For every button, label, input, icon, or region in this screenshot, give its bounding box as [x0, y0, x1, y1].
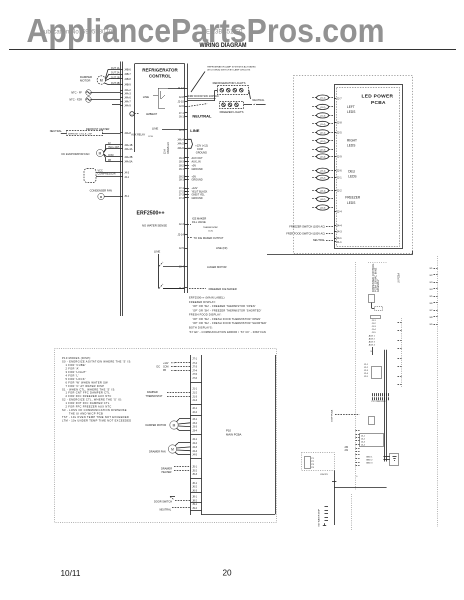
svg-text:AUX RELAY: AUX RELAY	[131, 134, 145, 137]
svg-text:'OP' OR 'SH' - FRESH FOOD THER: 'OP' OR 'SH' - FRESH FOOD THERMISTOR 'OP…	[192, 317, 261, 321]
dashed rail right outer	[437, 256, 439, 527]
wire below led assembly	[267, 251, 413, 255]
text ERF2500	[137, 210, 165, 216]
svg-text:~: ~	[131, 112, 133, 116]
svg-text:J7-1: J7-1	[192, 358, 197, 361]
svg-text:DISP PCBA: DISP PCBA	[331, 409, 334, 421]
svg-text:J8-1: J8-1	[179, 168, 184, 171]
svg-text:EI23BC51IS0: EI23BC51IS0	[206, 30, 243, 36]
svg-text:DRAWER FAN: DRAWER FAN	[149, 450, 166, 453]
svg-text:TST - 10s OVEN TEMP TIME NOT E: TST - 10s OVEN TEMP TIME NOT EXCEEDED	[62, 415, 129, 419]
svg-text:COMPRESSOR: COMPRESSOR	[98, 173, 116, 176]
svg-text:DRAWER: DRAWER	[161, 467, 172, 470]
label neutral bus	[192, 113, 212, 118]
svg-text:COIL: COIL	[148, 136, 154, 138]
svg-text:J7-3: J7-3	[192, 366, 197, 369]
svg-text:AT DOOR(S) SWITCH BY LAMP CIRC: AT DOOR(S) SWITCH BY LAMP CIRCUITS	[207, 68, 250, 71]
svg-text:J5-1: J5-1	[124, 195, 129, 198]
svg-text:MAIN PCBA: MAIN PCBA	[226, 432, 242, 436]
svg-text:J2-8: J2-8	[337, 122, 342, 125]
svg-text:J2-6: J2-6	[179, 105, 184, 108]
svg-text:FILL VALVE: FILL VALVE	[192, 220, 206, 224]
dashed wire to bus	[335, 414, 360, 416]
svg-text:OUT 2B: OUT 2B	[111, 82, 120, 85]
svg-text:REFRIGERATOR LAMP SYSTEM IS AC: REFRIGERATOR LAMP SYSTEM IS ACTIVATED	[207, 65, 256, 68]
svg-text:J1-1: J1-1	[337, 241, 342, 244]
dispenser notes box	[55, 349, 277, 523]
dashed rail R	[351, 494, 353, 531]
led box pin labels	[334, 98, 342, 244]
svg-text:GROUND: GROUND	[192, 197, 203, 200]
svg-text:J1-3: J1-3	[192, 395, 197, 398]
svg-text:J2-14: J2-14	[178, 234, 185, 237]
right connector strip	[185, 64, 188, 294]
svg-text:J7-1: J7-1	[179, 112, 184, 115]
svg-text:J2-10: J2-10	[178, 100, 185, 103]
svg-text:J9-1: J9-1	[192, 503, 197, 506]
dashed connector box M	[302, 453, 335, 471]
svg-text:2 FOR FFC FREEZER AUX NTC: 2 FOR FFC FREEZER AUX NTC	[65, 405, 111, 409]
note refrigerator lamp	[191, 65, 256, 92]
svg-text:HEATER: HEATER	[162, 471, 172, 474]
svg-text:J2-1: J2-1	[337, 177, 342, 180]
svg-text:(J4-2): (J4-2)	[320, 199, 326, 201]
svg-text:NEUTRAL: NEUTRAL	[252, 98, 265, 102]
svg-text:LEDS: LEDS	[347, 201, 355, 205]
svg-text:FREEZER SWITCH (100V AC): FREEZER SWITCH (100V AC)	[289, 224, 325, 228]
svg-text:J4A-6: J4A-6	[177, 147, 184, 150]
svg-text:J7-5: J7-5	[192, 373, 197, 376]
svg-text:LEFT: LEFT	[347, 105, 355, 109]
svg-text:J8-2: J8-2	[179, 164, 184, 167]
svg-text:J8-3: J8-3	[179, 161, 184, 164]
header publication number	[40, 30, 116, 36]
svg-text:J8-1: J8-1	[192, 496, 197, 499]
svg-text:J4-3: J4-3	[337, 231, 342, 234]
main pcba pin rows	[191, 358, 202, 511]
svg-text:2 FOR 'A': 2 FOR 'A'	[65, 367, 79, 371]
svg-text:J4B-9: J4B-9	[124, 84, 131, 87]
svg-text:'OP' OR 'SH' - FRESH FOOD THER: 'OP' OR 'SH' - FRESH FOOD THERMISTOR 'SH…	[192, 321, 267, 325]
svg-text:DOOR SWITCH: DOOR SWITCH	[154, 500, 172, 503]
svg-text:(J4-3): (J4-3)	[320, 207, 326, 209]
svg-text:2 FOR FFC FREEZER AUX NTC: 2 FOR FFC FREEZER AUX NTC	[65, 394, 111, 398]
rect I	[356, 431, 384, 466]
svg-text:J2-9: J2-9	[337, 156, 342, 159]
svg-text:GND 1: GND 1	[366, 456, 373, 458]
p10 main pcba label	[226, 428, 242, 436]
main pcba connector strip	[191, 355, 202, 515]
svg-text:S0 - ENERGIZE AGITATION WHERE: S0 - ENERGIZE AGITATION WHERE THE 'S' IS…	[62, 360, 132, 364]
labels +12v com ground	[185, 139, 208, 154]
svg-text:J4-5: J4-5	[192, 454, 197, 457]
svg-text:(J1-3): (J1-3)	[320, 115, 326, 117]
svg-text:+5V: +5V	[192, 164, 197, 167]
svg-text:J5-3: J5-3	[192, 473, 197, 476]
svg-text:THE UI AND WICP PCB: THE UI AND WICP PCB	[69, 411, 103, 415]
svg-text:GROUND: GROUND	[196, 151, 207, 154]
svg-text:NEUTRAL: NEUTRAL	[313, 238, 326, 242]
svg-text:6 FOR 'W' WHEN WATER SW: 6 FOR 'W' WHEN WATER SW	[65, 380, 108, 384]
svg-text:NEUTRAL: NEUTRAL	[192, 113, 212, 118]
rotated label H	[331, 409, 334, 421]
svg-text:AUGER MOTOR: AUGER MOTOR	[207, 265, 227, 269]
svg-text:DEFROST CYCLE +70F: DEFROST CYCLE +70F	[68, 133, 93, 135]
svg-text:(J1-4): (J1-4)	[320, 124, 326, 126]
svg-text:(J2-1): (J2-1)	[320, 132, 326, 134]
refrigerator control board U1	[135, 64, 185, 153]
freezer lights	[220, 102, 266, 114]
led assembly dashed enclosure	[294, 76, 413, 254]
svg-text:J3-4: J3-4	[192, 429, 197, 432]
text rows K	[366, 456, 373, 464]
left connector strip	[121, 62, 123, 317]
svg-text:LINE: LINE	[143, 95, 149, 99]
svg-text:J5-2: J5-2	[192, 469, 197, 472]
svg-text:FREEZER ICE MAKER: FREEZER ICE MAKER	[209, 287, 237, 291]
i/m enabled rotated label	[164, 142, 170, 154]
led group labels	[345, 105, 361, 205]
svg-text:J4-4: J4-4	[337, 224, 342, 227]
svg-text:1 FOR CNT FFC DAMPER CTL: 1 FOR CNT FFC DAMPER CTL	[65, 391, 110, 395]
svg-text:AUX 3: AUX 3	[369, 341, 376, 344]
svg-text:J4B-8: J4B-8	[124, 78, 131, 81]
svg-text:DAMPER: DAMPER	[147, 391, 158, 394]
svg-text:ICE WATER DISP: ICE WATER DISP	[318, 508, 321, 526]
svg-text:J8-2: J8-2	[192, 499, 197, 502]
svg-text:J3-3: J3-3	[192, 426, 197, 429]
svg-text:J6-3: J6-3	[192, 489, 197, 492]
svg-text:FRESH FOOD DISPLAY:: FRESH FOOD DISPLAY:	[189, 313, 222, 317]
small box B pins	[371, 316, 381, 335]
svg-text:Publication No. 5995580709: Publication No. 5995580709	[40, 30, 116, 36]
svg-text:GND 3: GND 3	[366, 462, 373, 464]
small box G	[369, 417, 375, 425]
title WIRING DIAGRAM	[200, 42, 247, 49]
svg-text:GND 2: GND 2	[366, 459, 373, 461]
svg-text:NEUTRAL: NEUTRAL	[160, 509, 172, 512]
drawer heater R2	[161, 467, 191, 474]
labels +5v gnd	[185, 175, 203, 181]
svg-text:LED POWER: LED POWER	[362, 93, 394, 99]
connector ovals J1-J4	[312, 95, 334, 210]
refrigerator lights	[213, 81, 249, 94]
svg-text:'OP' OR 'SH' - FREEZER THERMIS: 'OP' OR 'SH' - FREEZER THERMISTOR 'OPEN'	[192, 304, 255, 308]
dispenser control rotated label	[371, 263, 380, 292]
ambient sensor	[130, 112, 158, 117]
header model number	[206, 30, 243, 36]
svg-text:LEDS: LEDS	[347, 110, 355, 114]
svg-text:DC: DC	[157, 366, 161, 369]
svg-text:J4-1: J4-1	[192, 438, 197, 441]
svg-text:NO WATER SENSE: NO WATER SENSE	[142, 223, 167, 227]
label line fz	[216, 246, 228, 250]
svg-text:DELI: DELI	[348, 170, 355, 174]
svg-text:S1 - WHEN CTL, WHERE THE 'S' I: S1 - WHEN CTL, WHERE THE 'S' IS:	[62, 387, 116, 391]
text no water sense	[142, 223, 167, 227]
labels J7 group	[185, 187, 208, 200]
svg-text:J4A-4A: J4A-4A	[124, 148, 133, 151]
junction N	[320, 474, 359, 482]
double vertical bus	[385, 350, 387, 462]
svg-text:TO ICE MAKER OUTPUT: TO ICE MAKER OUTPUT	[194, 236, 224, 240]
damper thermostat	[146, 391, 191, 398]
tick column Q	[325, 507, 329, 521]
led power pcba box	[335, 85, 403, 249]
svg-text:3 FOR 'LIGHT': 3 FOR 'LIGHT'	[65, 370, 86, 374]
ice maker fill valve L1	[187, 217, 218, 233]
svg-text:J4A-5A: J4A-5A	[124, 161, 133, 164]
svg-text:UI PCBA: UI PCBA	[398, 273, 401, 283]
svg-text:ASSEMBLY: ASSEMBLY	[377, 279, 380, 292]
svg-text:REFRIGERATOR LIGHTS: REFRIGERATOR LIGHTS	[213, 81, 246, 85]
dashed rail mid	[401, 318, 403, 388]
svg-text:S2 - ENERGIZE CTL, WHERE THE ': S2 - ENERGIZE CTL, WHERE THE 'S' IS:	[62, 398, 122, 402]
svg-text:J3-1: J3-1	[192, 418, 197, 421]
svg-text:AUX_IN: AUX_IN	[192, 161, 201, 164]
label line bus	[190, 128, 199, 133]
dispenser damper motor M4	[146, 419, 191, 431]
wires damper motor to J4B	[105, 67, 121, 85]
svg-text:J1-2: J1-2	[192, 392, 197, 395]
svg-text:J4-2: J4-2	[192, 442, 197, 445]
svg-text:COM: COM	[163, 367, 168, 369]
svg-text:LINE (FZ): LINE (FZ)	[216, 246, 228, 250]
svg-text:J4A-9: J4A-9	[124, 105, 131, 108]
svg-text:J2-6: J2-6	[337, 170, 342, 173]
dotted top wire	[368, 262, 387, 264]
freezer switch labels	[286, 224, 334, 242]
svg-text:NTC - FF: NTC - FF	[71, 91, 82, 95]
svg-text:FREEZER DISPLAY:: FREEZER DISPLAY:	[189, 300, 216, 304]
svg-text:GROUND: GROUND	[192, 168, 203, 171]
line bus to ice maker	[154, 249, 185, 288]
svg-text:J4B-7: J4B-7	[124, 73, 131, 76]
ground S	[323, 523, 326, 525]
svg-text:'SY EF' - COMMUNICATION ERROR: 'SY EF' - COMMUNICATION ERROR / 'SY CF' …	[189, 330, 266, 334]
svg-text:20: 20	[223, 569, 233, 578]
svg-text:J7-2: J7-2	[192, 362, 197, 365]
line relay K1	[143, 88, 168, 109]
svg-text:CONDENSER FAN: CONDENSER FAN	[90, 188, 112, 192]
svg-text:J2-8: J2-8	[179, 96, 184, 99]
svg-text:AUX 4: AUX 4	[369, 343, 376, 346]
svg-text:FREEZER LIGHTS: FREEZER LIGHTS	[220, 110, 244, 114]
evaporator fan motor M2	[62, 149, 104, 156]
svg-text:LINE: LINE	[154, 249, 160, 253]
svg-text:LTM - 10s UNDER TEMP TIME NOT: LTM - 10s UNDER TEMP TIME NOT EXCEEDED	[62, 418, 131, 422]
svg-text:'OP' OR 'SH' - FREEZER THERMIS: 'OP' OR 'SH' - FREEZER THERMISTOR 'SHORT…	[192, 308, 261, 312]
svg-text:J2-4: J2-4	[337, 211, 342, 214]
pins left strip	[120, 69, 133, 199]
svg-text:(J1-2): (J1-2)	[320, 107, 326, 109]
svg-text:NEUTRAL: NEUTRAL	[50, 129, 63, 133]
small box A	[369, 295, 383, 311]
wire to ice maker output	[187, 236, 223, 240]
svg-text:P10 MODES (DISP):: P10 MODES (DISP):	[62, 356, 92, 360]
svg-text:J2-1: J2-1	[192, 407, 197, 410]
svg-text:J4-3: J4-3	[192, 446, 197, 449]
svg-text:DISABLED: DISABLED	[167, 142, 170, 154]
svg-text:J4A-7: J4A-7	[124, 101, 131, 104]
svg-text:J8-1: J8-1	[179, 179, 184, 182]
wire lights to neutral	[249, 90, 265, 102]
svg-text:(J2-2): (J2-2)	[320, 141, 326, 143]
svg-text:M: M	[173, 423, 176, 427]
svg-text:J4A-1B: J4A-1B	[124, 144, 133, 147]
svg-text:4 FOR 'L': 4 FOR 'L'	[65, 373, 79, 377]
svg-text:REFRIGERATOR: REFRIGERATOR	[142, 68, 178, 73]
svg-text:J2-5: J2-5	[179, 247, 184, 250]
aux relay K2	[131, 126, 184, 138]
svg-text:COIL: COIL	[208, 231, 214, 233]
wires rect I to ground box	[383, 457, 390, 460]
svg-text:J1-1: J1-1	[192, 388, 197, 391]
svg-text:J3-2: J3-2	[192, 422, 197, 425]
svg-text:J4A-3: J4A-3	[124, 93, 131, 96]
wire notes box exit	[202, 355, 276, 515]
svg-text:THERMOSTAT: THERMOSTAT	[203, 226, 218, 229]
svg-text:FB: FB	[163, 370, 166, 372]
svg-text:LINE: LINE	[190, 128, 199, 133]
svg-text:AMBIENT: AMBIENT	[146, 113, 158, 116]
svg-text:J20/J21: J20/J21	[320, 474, 328, 476]
svg-text:J6-2: J6-2	[192, 486, 197, 489]
svg-text:(J4-1): (J4-1)	[320, 190, 326, 192]
svg-text:J2-7: J2-7	[337, 98, 342, 101]
label J30	[344, 447, 348, 452]
ground box L	[390, 454, 399, 466]
connector row F	[372, 393, 389, 403]
svg-text:OUT 1B: OUT 1B	[111, 76, 120, 79]
svg-text:WIRING DIAGRAM: WIRING DIAGRAM	[200, 42, 247, 49]
svg-text:J2-2: J2-2	[192, 411, 197, 414]
condenser fan motor M3	[90, 188, 121, 199]
svg-text:OUT 1A: OUT 1A	[111, 67, 120, 70]
ui pcba rotated label	[398, 273, 401, 283]
svg-text:J7-4: J7-4	[192, 369, 197, 372]
svg-text:J4-1: J4-1	[124, 176, 129, 179]
wire O	[334, 471, 386, 526]
svg-text:BOTH DISPLAYS:: BOTH DISPLAYS:	[189, 325, 213, 329]
svg-text:J4-4: J4-4	[192, 450, 197, 453]
freezer ice maker	[189, 287, 237, 291]
svg-text:1 FOR FNT FFC DAMPER CTL: 1 FOR FNT FFC DAMPER CTL	[65, 401, 109, 405]
svg-text:COM: COM	[108, 155, 113, 157]
svg-text:J4A-2: J4A-2	[177, 143, 184, 146]
svg-text:M: M	[99, 151, 102, 155]
svg-text:ICE MAKER: ICE MAKER	[192, 217, 206, 221]
page footer	[61, 569, 233, 579]
svg-text:J4-3: J4-3	[124, 171, 129, 174]
svg-text:AUX 2: AUX 2	[369, 338, 376, 341]
svg-text:NTC - FZR: NTC - FZR	[69, 98, 82, 102]
svg-text:(J1-1): (J1-1)	[320, 98, 326, 100]
dashed rail left	[355, 262, 357, 490]
svg-text:PCBA: PCBA	[371, 100, 386, 106]
svg-text:FRZR FOOD SWITCH (100V AC): FRZR FOOD SWITCH (100V AC)	[286, 232, 325, 236]
svg-text:LINE: LINE	[152, 126, 158, 130]
neutral label dispenser	[160, 508, 191, 512]
svg-text:LEDS: LEDS	[348, 175, 356, 179]
svg-text:M: M	[100, 79, 103, 83]
svg-text:5 FOR 'LOCK': 5 FOR 'LOCK'	[65, 377, 85, 381]
svg-text:J2-5: J2-5	[337, 131, 342, 134]
svg-text:AUX OUT: AUX OUT	[192, 157, 204, 160]
notes text	[62, 356, 132, 422]
vertical element D	[370, 347, 372, 355]
svg-text:ERF2500++ (MAIN LABEL): ERF2500++ (MAIN LABEL)	[189, 296, 225, 300]
svg-text:J4A-3B: J4A-3B	[124, 156, 133, 159]
tick labels mid rail	[398, 323, 402, 385]
svg-text:J7-6: J7-6	[192, 377, 197, 380]
svg-text:J1-4: J1-4	[192, 399, 197, 402]
svg-text:FB: FB	[108, 160, 111, 162]
tick labels right rail	[430, 268, 438, 326]
text block C	[369, 335, 376, 347]
svg-text:J4-1: J4-1	[337, 237, 342, 240]
svg-text:J9-2: J9-2	[192, 507, 197, 510]
freezer display notes	[189, 296, 267, 334]
watermark AppliancePartsPros.com	[27, 12, 385, 49]
freezer door switch S1	[187, 90, 218, 106]
svg-text:J2-3: J2-3	[179, 223, 184, 226]
text columns E	[364, 364, 382, 379]
svg-text:YEL(+12V): YEL(+12V)	[108, 147, 120, 149]
svg-text:THERMOSTAT: THERMOSTAT	[146, 395, 163, 398]
wire stub J4A-9	[112, 104, 120, 106]
wire relay to J2-12	[168, 88, 185, 90]
svg-text:J4A-6: J4A-6	[124, 97, 131, 100]
svg-text:J7-4: J7-4	[179, 197, 184, 200]
svg-text:(J2-4): (J2-4)	[320, 156, 326, 158]
door switch S2	[154, 497, 191, 504]
svg-text:(J2-3): (J2-3)	[320, 149, 326, 151]
svg-text:J5-1: J5-1	[192, 466, 197, 469]
svg-text:J6-1: J6-1	[192, 482, 197, 485]
svg-text:1 FOR 'CUBE': 1 FOR 'CUBE'	[65, 363, 86, 367]
header rule	[9, 49, 456, 51]
wires evap fan to J4A	[104, 143, 121, 162]
svg-text:J4B-6: J4B-6	[124, 69, 131, 72]
svg-text:FREEZER: FREEZER	[345, 196, 361, 200]
svg-text:OUT 2A: OUT 2A	[111, 71, 120, 74]
svg-text:CONTROL: CONTROL	[149, 74, 171, 79]
svg-text:P2 CONN 120V: P2 CONN 120V	[372, 401, 387, 403]
svg-text:GROUND: GROUND	[192, 179, 203, 182]
svg-text:AUX 1: AUX 1	[369, 335, 376, 338]
svg-text:S3 - LOSS OF COMMUNICATION DIS: S3 - LOSS OF COMMUNICATION DISPENSE	[62, 408, 127, 412]
damper motor M1	[80, 75, 106, 84]
svg-text:RIGHT: RIGHT	[347, 139, 357, 143]
thermistor NTC-FZR RT2	[69, 97, 120, 103]
svg-text:J2-2: J2-2	[337, 190, 342, 193]
svg-text:J4A-4: J4A-4	[177, 138, 184, 141]
svg-text:LEDS: LEDS	[347, 143, 355, 147]
drawer fan M5	[149, 443, 191, 455]
compressor	[84, 169, 120, 183]
svg-text:J6-1: J6-1	[179, 116, 184, 119]
svg-text:(J3-1): (J3-1)	[320, 171, 326, 173]
svg-text:M: M	[171, 447, 174, 451]
svg-text:MOTOR: MOTOR	[80, 79, 90, 83]
svg-text:DC EVAPORATOR FAN: DC EVAPORATOR FAN	[62, 152, 90, 156]
pins right strip	[177, 87, 187, 290]
svg-text:DAMPER MOTOR: DAMPER MOTOR	[146, 424, 167, 427]
svg-text:10/11: 10/11	[61, 569, 81, 578]
thermistor NTC-FF RT1	[71, 90, 120, 96]
auger motor label	[207, 265, 227, 269]
